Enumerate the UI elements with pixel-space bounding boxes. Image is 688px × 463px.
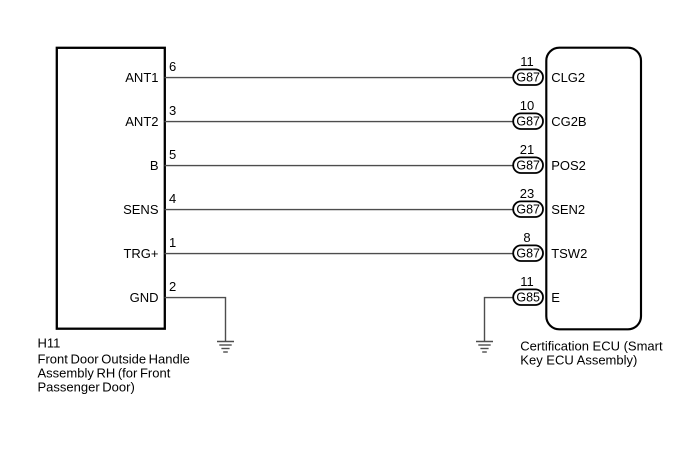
component name Certification ECU (Smart Key ECU Assembly) bbox=[520, 338, 663, 367]
svg-text:TRG+: TRG+ bbox=[123, 246, 158, 261]
svg-text:E: E bbox=[551, 290, 560, 305]
wire ANT1 to CLG2 bbox=[165, 77, 514, 79]
wire TRG+ to TSW2 bbox=[165, 253, 514, 255]
svg-text:4: 4 bbox=[169, 191, 176, 206]
svg-text:G87: G87 bbox=[516, 115, 540, 129]
svg-text:G87: G87 bbox=[516, 203, 540, 217]
wire E to ground bbox=[485, 298, 514, 341]
svg-text:Certification ECU (Smart: Certification ECU (Smart bbox=[520, 338, 663, 353]
svg-text:G85: G85 bbox=[516, 291, 540, 305]
svg-text:CLG2: CLG2 bbox=[551, 70, 585, 85]
svg-text:8: 8 bbox=[523, 230, 530, 245]
svg-text:SENS: SENS bbox=[123, 202, 159, 217]
svg-text:ANT1: ANT1 bbox=[125, 70, 158, 85]
svg-text:G87: G87 bbox=[516, 159, 540, 173]
ground (H11 GND) bbox=[217, 342, 234, 353]
svg-text:21: 21 bbox=[520, 142, 534, 157]
svg-text:G87: G87 bbox=[516, 71, 540, 85]
svg-text:2: 2 bbox=[169, 279, 176, 294]
connector Certification ECU body bbox=[546, 48, 641, 330]
connector oval G87 pin CLG2 bbox=[513, 69, 543, 85]
svg-text:G87: G87 bbox=[516, 247, 540, 261]
ground (ECU E) bbox=[476, 342, 493, 353]
svg-text:1: 1 bbox=[169, 235, 176, 250]
connector oval G87 pin CG2B bbox=[513, 113, 543, 129]
svg-text:6: 6 bbox=[169, 59, 176, 74]
svg-text:Assembly RH (for Front: Assembly RH (for Front bbox=[38, 366, 171, 381]
wire B to POS2 bbox=[165, 165, 514, 167]
wire SENS to SEN2 bbox=[165, 209, 514, 211]
component name Front Door Outside Handle Assembly RH (for Front Passenger Door) bbox=[38, 352, 190, 395]
svg-text:5: 5 bbox=[169, 147, 176, 162]
svg-text:GND: GND bbox=[130, 290, 159, 305]
svg-text:Passenger Door): Passenger Door) bbox=[38, 380, 135, 395]
svg-text:23: 23 bbox=[520, 186, 534, 201]
connector oval G87 pin SEN2 bbox=[513, 201, 543, 217]
svg-text:H11: H11 bbox=[38, 335, 61, 350]
svg-text:11: 11 bbox=[520, 54, 534, 69]
svg-text:B: B bbox=[150, 158, 159, 173]
wire ANT2 to CG2B bbox=[165, 121, 514, 123]
wire GND to ground bbox=[165, 298, 226, 341]
svg-text:3: 3 bbox=[169, 103, 176, 118]
svg-text:Front Door Outside Handle: Front Door Outside Handle bbox=[38, 352, 190, 367]
svg-text:POS2: POS2 bbox=[551, 158, 586, 173]
svg-text:SEN2: SEN2 bbox=[551, 202, 585, 217]
svg-text:11: 11 bbox=[520, 274, 534, 289]
svg-text:10: 10 bbox=[520, 98, 534, 113]
svg-text:CG2B: CG2B bbox=[551, 114, 586, 129]
svg-text:Key ECU Assembly): Key ECU Assembly) bbox=[520, 352, 637, 367]
connector H11 (Front Door Outside Handle Assembly RH) bbox=[57, 48, 165, 329]
connector oval G85 pin E bbox=[513, 289, 543, 305]
svg-text:TSW2: TSW2 bbox=[551, 246, 587, 261]
connector oval G87 pin POS2 bbox=[513, 157, 543, 173]
connector oval G87 pin TSW2 bbox=[513, 245, 543, 261]
svg-text:ANT2: ANT2 bbox=[125, 114, 158, 129]
